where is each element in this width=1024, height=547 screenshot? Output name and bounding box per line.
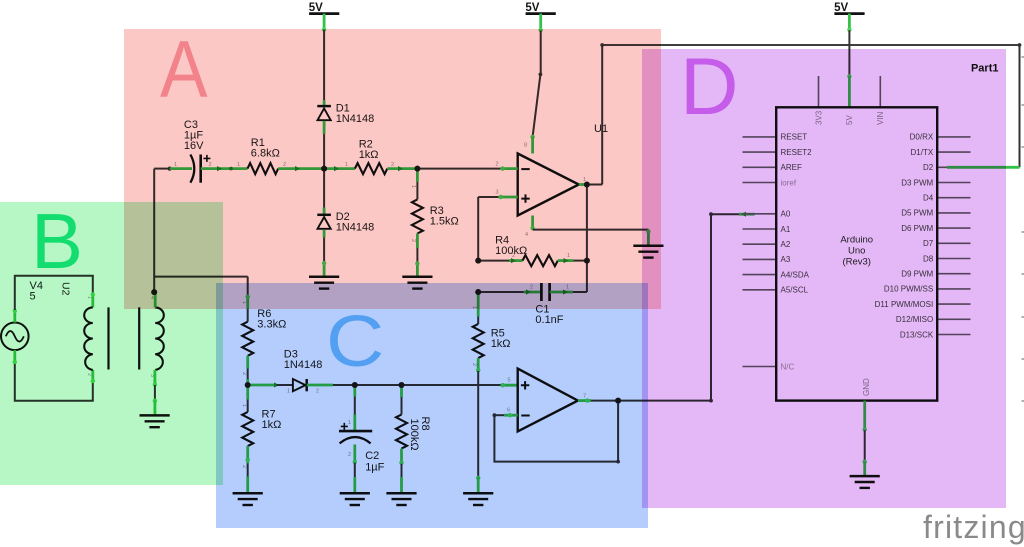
wire arrows C1 — [526, 289, 568, 294]
arduino right pin labels — [875, 133, 934, 340]
ground near opamp U1 — [633, 246, 663, 258]
node redraw C1/R5 junction — [475, 289, 481, 295]
wire opamp2 output — [578, 394, 618, 403]
resistor R1 6.8k — [248, 137, 280, 174]
wire node to R2 — [324, 167, 355, 170]
wire output down to R4/C1 — [586, 185, 588, 293]
wire C1 to output branch — [550, 291, 573, 294]
wire corner into R6 — [246, 277, 250, 322]
node R4 right — [584, 258, 590, 264]
wire C3 to R1 — [201, 167, 248, 171]
resistor R6 3.3k — [242, 308, 286, 356]
capacitor C2 1uF polarized — [339, 423, 385, 474]
svg-text:5V: 5V — [309, 2, 323, 14]
wire node to secondary top — [154, 292, 157, 307]
op-amp U1 — [518, 123, 608, 216]
wire arrows on rail — [217, 166, 403, 171]
wire arduino D2 to right edge — [947, 166, 1020, 169]
right edge clipped part fragments — [1022, 57, 1024, 401]
wire C3 node down to transformer node — [153, 169, 155, 293]
region overlay C (blue) — [216, 283, 648, 528]
wire opamp minus stub — [500, 166, 517, 170]
node junction R8 — [399, 382, 405, 388]
node junction opamp2 output — [615, 398, 621, 404]
wire node to C1 — [478, 291, 524, 293]
wire top horizontal to right edge — [602, 43, 1021, 167]
diode D2 1N4148 — [317, 211, 374, 234]
arduino top pin labels rotated — [814, 110, 885, 125]
region overlay B (green) — [0, 202, 223, 485]
ground under arduino — [850, 476, 880, 488]
node redraw opamp1 output junction — [584, 182, 590, 188]
node redraw transformer pin4 junction — [151, 289, 157, 295]
capacitor C1 0.1nF — [535, 283, 563, 326]
wire node down to C2 — [353, 385, 356, 431]
node R4 left — [475, 258, 481, 264]
node redraw R4 right junction — [584, 258, 590, 264]
arduino left pin labels — [781, 133, 813, 372]
ground under transformer — [140, 415, 170, 427]
transformer U2 secondary coil — [155, 307, 164, 370]
power 5V supply P2 — [525, 2, 555, 14]
wire V4 loop top — [13, 276, 95, 323]
node junction D1/D2/R1/R2 — [321, 166, 327, 172]
wire R1 to node — [278, 167, 324, 170]
node junction C2 — [352, 382, 358, 388]
wire green stub into opamp2 plus — [501, 378, 518, 388]
wire D3 to opamp plus rail — [307, 384, 501, 387]
wire node down to R5 — [477, 292, 480, 324]
letter B — [31, 202, 83, 280]
wire secondary bottom to ground — [153, 370, 157, 416]
voltage source V4 — [1, 280, 43, 350]
capacitor C3 1uF 16V — [184, 119, 211, 183]
wire node down to R7 — [246, 385, 249, 412]
diode D3 1N4148 — [284, 349, 323, 395]
resistor R2 1k — [355, 139, 387, 175]
resistor R4 100k — [495, 235, 558, 267]
pin numbers R4 C1 — [512, 253, 570, 291]
resistor R5 1k — [473, 324, 511, 358]
wire 5V P2 diagonal to opamp U1 pin8 — [524, 14, 543, 154]
resistor R3 1.5k — [412, 199, 459, 233]
node redraw D1/D2/R1/R2 junction — [321, 166, 327, 172]
fritzing watermark — [923, 511, 1024, 543]
wire R4 to node — [558, 259, 573, 262]
ground under D2 — [309, 277, 339, 289]
wire R2 to node — [387, 167, 417, 170]
wire arrows R4 — [511, 258, 569, 263]
resistor R8 100k — [396, 415, 431, 451]
transformer U2 primary coil — [84, 307, 93, 370]
pin numbers vertical resistors — [241, 185, 477, 468]
ground under C2 — [340, 493, 370, 505]
wire node down to R8 — [400, 385, 403, 415]
ground under R8 — [386, 493, 416, 505]
ground under R3 — [402, 277, 432, 289]
letter A — [160, 30, 208, 111]
letter D — [680, 47, 739, 128]
wire node to R6 horizontal — [154, 276, 248, 278]
wire D2 to ground — [322, 230, 326, 277]
wire node to R4 — [478, 260, 509, 262]
wire node to opamp minus input — [417, 168, 500, 170]
transformer U2 core — [109, 307, 140, 369]
wire 5V P3 to arduino 5V pin — [847, 14, 851, 108]
node redraw R6/R7/D3 junction — [245, 382, 251, 388]
wire R7 to ground — [246, 446, 250, 493]
arduino U-part pin stubs left — [743, 137, 777, 367]
wire R6 to node — [246, 356, 249, 385]
node redraw R4 left junction — [475, 258, 481, 264]
power 5V supply P1 label — [309, 2, 340, 14]
wire D1 to node — [323, 121, 326, 167]
wire opamp output — [579, 177, 602, 187]
ground under R5 — [463, 493, 493, 505]
arduino U-part pin stubs right — [937, 137, 970, 335]
wire R8 to ground — [399, 449, 403, 494]
node C1 left — [475, 289, 481, 295]
wire V4 loop bottom — [13, 350, 95, 401]
wire opamp2 minus feedback loop — [493, 401, 620, 464]
transformer pin numbers — [87, 296, 156, 377]
wire R3 to ground — [415, 234, 419, 277]
arduino Part1 box — [776, 107, 937, 400]
wire 5V P1 to D1 — [322, 14, 326, 107]
resistor R7 1k — [242, 409, 281, 447]
wire node to D3 — [248, 382, 293, 387]
region overlay A (red) — [124, 29, 661, 309]
wire R5 to ground — [476, 358, 480, 493]
wire output to A0 — [618, 212, 754, 403]
wire opamp plus input from R4 node — [478, 195, 518, 261]
svg-text:5V: 5V — [525, 2, 539, 14]
arduino U-part pin stubs top — [819, 76, 881, 107]
node transformer pin4 junction — [151, 289, 157, 295]
wire output riser to top — [600, 43, 604, 184]
ground under R7 — [233, 493, 263, 505]
diode D1 1N4148 — [317, 102, 374, 125]
wire node R2R3 down to R3 — [416, 170, 419, 199]
pin number labels rail — [174, 162, 499, 196]
wire arduino GND to ground — [863, 401, 867, 477]
wire opamp pin4 to ground — [525, 216, 651, 246]
node junction R6/R7/D3 — [245, 382, 251, 388]
node redraw C2 junction — [352, 382, 358, 388]
node redraw R8 junction — [399, 382, 405, 388]
node redraw opamp2 output junction — [615, 398, 621, 404]
arduino title — [840, 235, 873, 268]
wire rail left corner to C3 — [154, 167, 192, 171]
op-amp U3 (lower) — [518, 369, 578, 432]
region overlay D (purple) — [642, 49, 1006, 508]
svg-text:5V: 5V — [834, 2, 848, 14]
node junction C1/R5 — [475, 289, 481, 295]
power 5V supply P3 — [834, 2, 864, 14]
node junction R2/R3 — [415, 166, 421, 172]
wire C2 to ground — [353, 445, 357, 494]
wire node to D2 — [323, 170, 325, 215]
node redraw R2/R3/opamp junction — [414, 166, 420, 172]
letter C — [326, 306, 384, 378]
